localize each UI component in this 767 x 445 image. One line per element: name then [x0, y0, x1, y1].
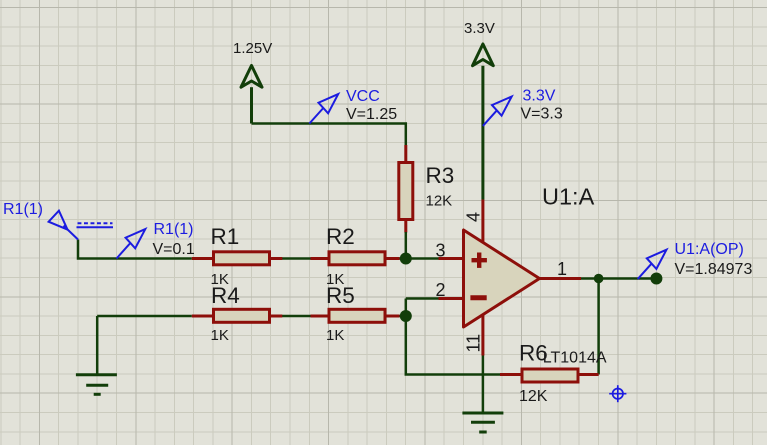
voltage probe R1(1) [117, 229, 146, 258]
svg-text:4: 4 [464, 212, 484, 222]
wire R3 to node A [405, 232, 408, 259]
sheet origin marker [609, 385, 626, 402]
op-amp minus input marking [470, 295, 486, 300]
resistor R1 1K [192, 252, 282, 265]
svg-text:V=1.84973: V=1.84973 [675, 261, 753, 278]
ground (left, below R4 input) [76, 375, 117, 395]
resistor R5 1K [311, 309, 400, 322]
wire R4 to R5 [281, 315, 310, 318]
wire R6 to output node [580, 279, 599, 375]
power terminal 1.25V arrow [241, 66, 262, 124]
svg-text:1K: 1K [211, 327, 229, 344]
svg-text:1K: 1K [326, 327, 344, 344]
op-amp U1 pin 4 stub [481, 200, 484, 244]
wire R1 to R2 [281, 257, 310, 260]
generator R1(1) DC symbol [77, 223, 114, 227]
ground (below op-amp pin 11) [462, 413, 503, 432]
svg-text:R2: R2 [326, 224, 355, 249]
generator R1(1) arrow [49, 211, 78, 240]
svg-text:U1:A(OP): U1:A(OP) [675, 241, 744, 258]
wire input from generator to R1 [78, 240, 192, 259]
svg-text:1: 1 [557, 259, 567, 279]
voltage probe U1:A(OP) [638, 250, 667, 279]
svg-text:3.3V: 3.3V [464, 20, 495, 37]
resistor R4 1K [192, 309, 282, 322]
resistor R3 12K [399, 145, 413, 233]
wire R5 to node B [399, 315, 407, 318]
resistor R6 12K [500, 369, 599, 382]
svg-text:U1:A: U1:A [542, 184, 595, 210]
wire op-amp output [581, 277, 656, 280]
voltage probe VCC [309, 94, 338, 123]
resistor R2 1K [311, 252, 400, 265]
node A junction dot (R2/R3/pin3) [400, 253, 412, 265]
output wire end dot [650, 273, 662, 285]
wire feedback node B down to R6 [406, 299, 500, 375]
svg-text:12K: 12K [519, 388, 548, 405]
svg-text:LT1014A: LT1014A [543, 350, 607, 367]
power terminal 3.3V arrow [473, 44, 494, 200]
op-amp U1:A LT1014A triangle [464, 230, 540, 327]
wire R2/R3 node to op-amp pin 3 [399, 257, 439, 260]
wire op-amp pin 11 to ground [482, 356, 485, 412]
op-amp U1 pin 11 stub [481, 314, 484, 356]
svg-text:V=3.3: V=3.3 [521, 106, 563, 123]
op-amp U1 pin 2 stub [439, 297, 465, 300]
op-amp U1 pin 3 stub [439, 257, 465, 260]
svg-text:VCC: VCC [346, 88, 380, 105]
svg-text:1.25V: 1.25V [233, 40, 272, 57]
voltage probe 3.3V [483, 97, 512, 126]
svg-text:3: 3 [435, 241, 445, 261]
op-amp U1 pin 1 stub [539, 277, 581, 280]
wire VCC rail from 1.25V terminal to R3 [252, 124, 406, 146]
op-amp plus input marking [472, 253, 487, 268]
svg-text:R5: R5 [326, 283, 355, 308]
svg-text:2: 2 [435, 280, 445, 300]
wire R4 node to ground [96, 316, 99, 374]
svg-text:11: 11 [464, 334, 484, 353]
svg-text:R3: R3 [426, 163, 455, 188]
svg-text:R1(1): R1(1) [154, 221, 194, 238]
svg-text:R1(1): R1(1) [3, 201, 43, 218]
svg-text:12K: 12K [426, 193, 453, 210]
node B junction dot (R5/pin2/feedback) [400, 310, 412, 322]
output node junction dot [594, 274, 604, 284]
wire ground riser to R4 [97, 315, 192, 318]
svg-text:R1: R1 [211, 224, 240, 249]
svg-text:3.3V: 3.3V [523, 88, 556, 105]
svg-text:V=0.1: V=0.1 [153, 241, 195, 258]
svg-text:V=1.25: V=1.25 [346, 106, 397, 123]
wire node B to op-amp pin 2 [406, 297, 439, 300]
svg-text:R4: R4 [211, 283, 240, 308]
